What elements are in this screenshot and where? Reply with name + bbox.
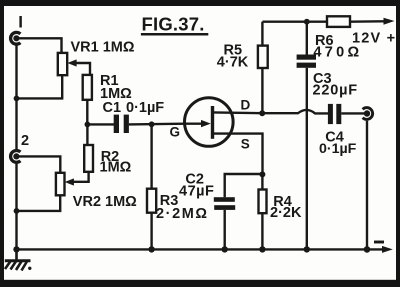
svg-text:0·1µF: 0·1µF xyxy=(126,100,164,116)
wire: jack2 to VR2 top xyxy=(16,156,60,172)
node: C2 ground junction xyxy=(222,246,228,252)
input jack 2 xyxy=(11,151,21,163)
transistor U1 (FET) body xyxy=(185,98,234,147)
wire: VR1 bottom to left bus xyxy=(17,75,63,98)
svg-text:FIG.37.: FIG.37. xyxy=(142,13,205,34)
wire: C3 top lead xyxy=(306,22,308,55)
wire: C4 to output jack xyxy=(341,112,364,114)
title FIG.37. xyxy=(141,13,208,34)
resistor R2 xyxy=(84,145,93,172)
output jack xyxy=(363,108,373,120)
svg-text:G: G xyxy=(170,124,181,139)
resistor R4 xyxy=(259,190,267,214)
wire: D node to C4 with hop over C3 line xyxy=(262,110,330,113)
svg-text:220µF: 220µF xyxy=(313,82,358,98)
node: VR2 bottom junction xyxy=(14,208,20,214)
capacitor C3 xyxy=(297,55,316,68)
wire: source lead, corner down to S node xyxy=(213,134,263,175)
wire: C1 to gate of FET xyxy=(129,122,185,125)
wire: C2 bottom to ground rail xyxy=(223,210,225,250)
resistor R1 xyxy=(83,75,92,100)
svg-text:1MΩ: 1MΩ xyxy=(100,160,132,176)
node: jack ground junction xyxy=(364,246,371,253)
wire: C3 bottom to ground rail xyxy=(306,68,308,250)
svg-text:0·1µF: 0·1µF xyxy=(319,141,357,157)
wire: S node left to C2 xyxy=(225,174,263,197)
wire: R2 top lead xyxy=(86,124,88,145)
svg-text:470Ω: 470Ω xyxy=(313,45,362,61)
svg-text:4·7K: 4·7K xyxy=(217,54,249,70)
resistor R6 xyxy=(327,16,350,27)
svg-text:VR1 1MΩ: VR1 1MΩ xyxy=(71,39,135,55)
wire: top supply rail xyxy=(262,21,327,23)
potentiometer VR2 xyxy=(56,173,65,196)
wire: jack sleeve to ground rail xyxy=(366,121,368,250)
node: R4 ground junction xyxy=(259,246,265,252)
node: R3 ground junction xyxy=(148,246,154,252)
svg-text:S: S xyxy=(241,137,250,152)
svg-text:D: D xyxy=(241,98,251,113)
node S junction xyxy=(259,171,265,177)
capacitor C2 xyxy=(214,197,235,210)
wire: junction to C1 xyxy=(87,123,114,125)
VR1 wiper arrow to R1 xyxy=(67,59,90,75)
label minus xyxy=(374,241,384,244)
node D junction xyxy=(259,110,265,116)
wire: VR2 bottom to left bus xyxy=(17,195,61,211)
potentiometer VR1 xyxy=(58,53,67,75)
svg-text:12V +: 12V + xyxy=(352,31,396,47)
wire: R5 bottom to D node xyxy=(261,68,263,113)
node: R1/R2/C1 junction xyxy=(85,122,91,128)
resistor R3 xyxy=(147,189,156,213)
svg-text:47µF: 47µF xyxy=(179,183,214,199)
svg-text:2·2K: 2·2K xyxy=(270,205,302,221)
wire: R3 top lead xyxy=(150,124,152,188)
transistor channel bar xyxy=(211,106,214,139)
svg-text:C1: C1 xyxy=(103,100,122,116)
wire: ground rail xyxy=(17,248,384,250)
resistor R5 xyxy=(258,46,268,68)
earth hatch dot xyxy=(28,267,31,270)
wire: left ground bus (jack1 to jack2 to rail) xyxy=(15,45,17,249)
svg-text:2·2MΩ: 2·2MΩ xyxy=(156,206,209,222)
wire: jack1 to VR1 top xyxy=(16,38,61,53)
node: C3 ground junction xyxy=(304,246,310,252)
node: R3 top junction xyxy=(149,121,155,127)
wire: supply rail corner to R5 xyxy=(261,22,263,46)
svg-text:VR2 1MΩ: VR2 1MΩ xyxy=(73,194,137,210)
wire: R3 bottom lead xyxy=(150,213,152,250)
node: VR1 bottom junction xyxy=(14,96,20,102)
wire: drain lead to D node xyxy=(213,111,262,114)
wire: R1 bottom to gate node xyxy=(86,100,88,125)
capacitor C1 xyxy=(114,115,129,133)
svg-text:I: I xyxy=(18,13,23,32)
capacitor C4 xyxy=(328,104,341,124)
wire: R6 to supply arrow xyxy=(350,18,395,25)
wire: R4 bottom to ground xyxy=(261,213,263,249)
ground rail arrow (negative) xyxy=(382,246,393,253)
gate lead with arrow xyxy=(185,120,211,127)
node: C3 top junction xyxy=(304,19,310,25)
input jack 1 xyxy=(11,32,21,44)
ground (earth symbol) xyxy=(5,249,31,270)
wire: R4 top lead xyxy=(261,174,263,189)
VR2 wiper arrow to R2 xyxy=(65,172,89,186)
node: left ground junction xyxy=(13,246,19,252)
svg-text:2: 2 xyxy=(21,133,29,149)
